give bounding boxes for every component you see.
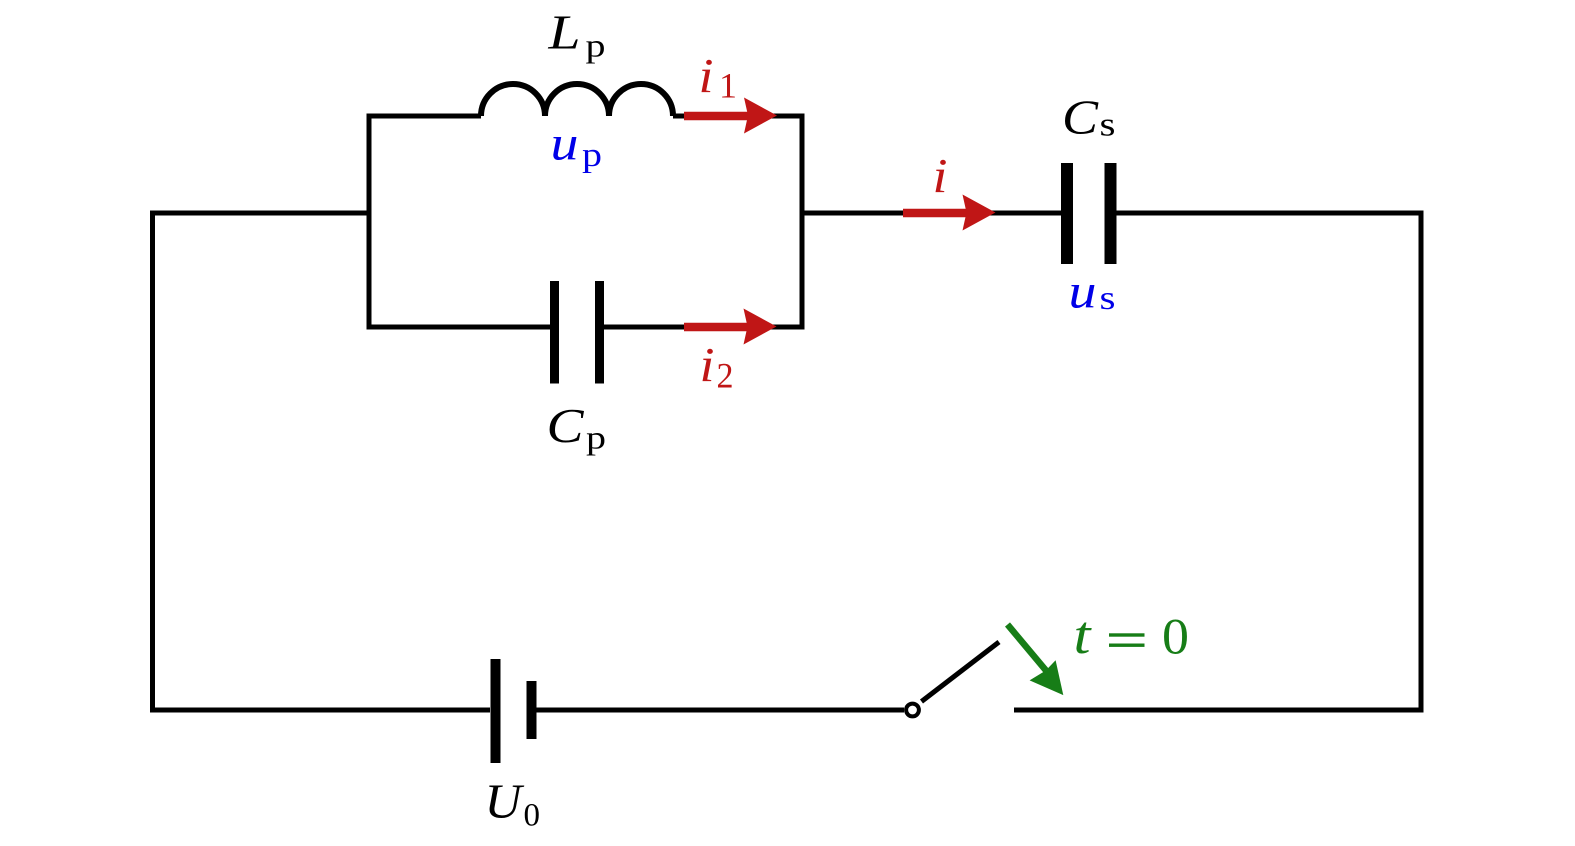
svg-text:t: t <box>1074 605 1093 665</box>
svg-text:2: 2 <box>717 356 734 396</box>
svg-text:u: u <box>1069 264 1097 319</box>
svg-text:L: L <box>547 5 580 60</box>
svg-text:i: i <box>699 48 714 103</box>
svg-text:s: s <box>1100 280 1116 317</box>
svg-text:s: s <box>1100 107 1116 144</box>
svg-text:C: C <box>1062 90 1099 145</box>
svg-text:1: 1 <box>719 66 737 106</box>
svg-text:0: 0 <box>1162 610 1189 666</box>
svg-text:i: i <box>700 337 715 392</box>
svg-text:p: p <box>586 421 606 457</box>
svg-text:C: C <box>547 398 585 453</box>
svg-text:0: 0 <box>524 798 541 834</box>
svg-text:i: i <box>933 148 948 203</box>
svg-text:p: p <box>586 29 606 65</box>
svg-text:u: u <box>551 116 579 171</box>
svg-text:U: U <box>485 774 526 829</box>
svg-text:p: p <box>582 137 602 174</box>
